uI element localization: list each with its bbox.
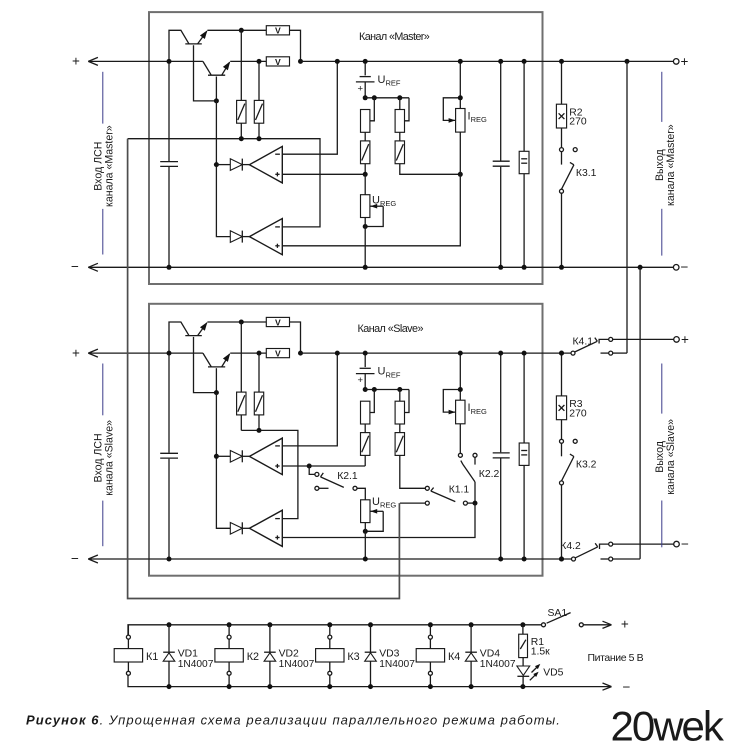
svg-text:К2: К2	[247, 651, 259, 663]
relay K3 coil	[327, 622, 332, 627]
node slave divider1 wiper tap	[372, 387, 377, 392]
diode slave upper op-amp output	[230, 451, 242, 463]
svg-text:V: V	[275, 26, 281, 36]
svg-text:−: −	[681, 259, 689, 274]
wire slave − rail	[88, 558, 571, 560]
potentiometer U_REG slave	[361, 500, 370, 523]
svg-text:+: +	[681, 54, 689, 69]
slave output label line lower	[661, 501, 663, 548]
wire master R-a wiper loop	[370, 98, 374, 121]
slave input label line lower	[102, 501, 104, 547]
wire slave R-d bottom to K1.1	[400, 455, 426, 488]
svg-text:Канал «Slave»: Канал «Slave»	[358, 323, 424, 335]
wire slave current setpoint to lower op-amp +	[282, 503, 475, 537]
node I_REG master top on + rail	[458, 59, 463, 64]
resistor master adjustable R-b	[361, 141, 370, 164]
potentiometer U_REG master	[364, 174, 366, 194]
svg-text:V: V	[275, 317, 281, 327]
wire master divider top link	[365, 97, 409, 99]
resistor slave divider R-a	[361, 401, 370, 424]
resistor master divider R-a	[361, 110, 370, 133]
svg-text:270: 270	[569, 117, 587, 128]
svg-text:+: +	[621, 616, 629, 631]
svg-text:V: V	[275, 349, 281, 359]
node К3.2 bottom on − rail	[559, 557, 564, 562]
resistor slave adjustable R-b	[361, 433, 370, 456]
wire К3.2 to − rail	[561, 485, 563, 559]
diode VD1 1N4007	[167, 622, 172, 627]
diode VD2 1N4007	[267, 622, 272, 627]
svg-text:UREG: UREG	[372, 496, 396, 510]
svg-text:+: +	[358, 83, 364, 94]
wire slave R-c to adjustable	[399, 424, 401, 433]
svg-text:20wek: 20wek	[611, 702, 725, 748]
diode master lower op-amp output	[230, 231, 242, 243]
wire master drive tap to upper diode	[216, 164, 230, 166]
wire slave upper op-amp − input to + rail	[282, 353, 337, 446]
wire master R-b bottom to + input	[364, 164, 366, 175]
wire master + rail right of pass transistors	[230, 60, 266, 62]
LED VD5	[517, 666, 530, 675]
wire master base drive to error amps	[216, 101, 230, 237]
node master V-meters junction on + rail	[298, 59, 303, 64]
node master divider1 wiper tap	[372, 95, 377, 100]
wire slave divider top link	[365, 389, 409, 391]
svg-text:К2.2: К2.2	[479, 469, 500, 480]
node slave sense wire shunt2 junction	[257, 428, 262, 433]
wire U_REG slave wiper loop	[370, 510, 383, 512]
svg-text:1N4007: 1N4007	[178, 659, 214, 670]
svg-text:VD5: VD5	[543, 668, 563, 679]
wire K2.2 to K1.1 junction	[474, 482, 476, 503]
svg-text:UREG: UREG	[372, 194, 396, 208]
node slave base drive junction	[214, 390, 219, 395]
slave output label line upper	[661, 364, 663, 414]
wire master − rail to slave K4.2	[639, 267, 641, 559]
node slave divider top	[363, 387, 368, 392]
node master cap2 bottom	[522, 265, 527, 270]
switch K1.1 relay contact	[425, 486, 429, 490]
resistor R1 1.5k	[520, 622, 525, 627]
switch К3.2 relay contact	[560, 439, 564, 443]
wire master R-a to adjustable	[364, 132, 366, 141]
wire master current-sense line	[128, 139, 320, 227]
op-amp master current error amp (lower)	[249, 219, 282, 255]
wire K2.1 to U_REG top	[357, 488, 365, 500]
svg-text:К1: К1	[146, 651, 158, 663]
node К3.1 bottom on − rail	[559, 265, 564, 270]
svg-text:канала «Slave»: канала «Slave»	[665, 419, 677, 495]
node slave cap2 top	[522, 351, 527, 356]
node I_REG slave wiper tap	[458, 387, 463, 392]
switch K2.1 relay contact	[307, 464, 312, 469]
svg-text:+: +	[358, 375, 364, 386]
resistor slave shunt 1 (adjustable)	[240, 322, 242, 392]
transistor Q1 master pass (upper)	[169, 30, 189, 61]
op-amp slave voltage error amp (upper)	[249, 438, 282, 475]
resistor master adjustable R-d	[395, 141, 404, 164]
capacitor slave output 1	[500, 353, 502, 452]
node slave cap1 bottom	[498, 557, 503, 562]
svg-text:Вход ЛСН: Вход ЛСН	[92, 142, 104, 191]
slave input label	[92, 420, 115, 496]
transistor Q2 slave pass (lower)	[203, 353, 211, 367]
node master input cap bottom on − rail	[167, 265, 172, 270]
battery master U_REF reference	[364, 61, 366, 75]
wire relay chain − rail	[128, 675, 611, 686]
node master U_REF top on + rail	[363, 59, 368, 64]
switch K2.2 relay contact	[459, 424, 461, 454]
relay K2 coil	[227, 622, 232, 627]
wire slave upper V-meter to + rail	[290, 322, 301, 353]
wire master R-c wiper loop	[405, 98, 409, 121]
switch K4.2 relay contact	[559, 557, 564, 562]
svg-text:К3.2: К3.2	[576, 460, 597, 471]
slave − output terminal	[613, 543, 674, 545]
capacitor slave input filter	[168, 353, 170, 453]
wire slave R-a to adjustable	[364, 424, 366, 433]
V-meter box master lower	[266, 57, 289, 66]
node master base drive junction	[214, 98, 219, 103]
node I_REG master wiper tap	[458, 95, 463, 100]
wire master + rail to slave K4.1	[626, 61, 628, 353]
svg-text:канала «Slave»: канала «Slave»	[104, 420, 116, 496]
node master sense wire shunt2 junction	[257, 136, 262, 141]
switch К3.1 relay contact	[560, 148, 564, 152]
resistor master divider R-c	[399, 98, 401, 110]
node master input cap top on + rail	[167, 59, 172, 64]
wire I_REG master wiper loop	[443, 98, 460, 121]
wire Q2 master base lead	[215, 77, 217, 101]
node slave U_REF top on + rail	[363, 351, 368, 356]
svg-text:К4: К4	[448, 651, 460, 663]
svg-text:+: +	[681, 332, 689, 347]
wire Q2 slave base lead	[215, 368, 217, 392]
diode VD4 1N4007	[469, 622, 474, 627]
wire slave R-c wiper loop	[405, 390, 409, 413]
wire slave upper diode to op-amp output	[243, 455, 250, 457]
slave input label line upper	[102, 364, 104, 416]
svg-text:VD4: VD4	[480, 648, 500, 659]
capacitor master output 2 (electrolytic)	[523, 61, 525, 151]
wire U_REG master wiper loop	[370, 205, 383, 207]
svg-text:UREF: UREF	[378, 74, 401, 88]
node Q1 master emitter wire junction	[239, 28, 244, 33]
node slave shunt 2 top on + rail	[257, 351, 262, 356]
slave channel frame box	[149, 304, 543, 576]
svg-text:К4.1: К4.1	[573, 336, 594, 347]
node master cap1 top	[498, 59, 503, 64]
svg-text:К3: К3	[347, 651, 359, 663]
svg-text:Вход ЛСН: Вход ЛСН	[92, 433, 104, 482]
V-meter box slave upper	[266, 317, 289, 326]
master input label line lower	[102, 209, 104, 255]
node U_REG slave on − rail	[363, 557, 368, 562]
master output label line lower	[661, 209, 663, 256]
wire slave + input rail	[88, 352, 203, 354]
master + output terminal	[625, 59, 630, 64]
wire master R-c to adjustable	[399, 132, 401, 141]
node master divider2 top	[397, 95, 402, 100]
svg-text:VD3: VD3	[379, 648, 399, 659]
wire master upper op-amp − input to + rail	[282, 61, 337, 154]
node K1.1/K2.2 junction	[473, 501, 478, 506]
svg-text:+: +	[72, 345, 80, 360]
svg-text:VD2: VD2	[279, 648, 299, 659]
slave + output terminal	[613, 338, 674, 340]
wire slave upper op-amp + input	[282, 465, 365, 467]
wire К3.1 to − rail	[561, 193, 563, 267]
wire slave base drive to error amps	[216, 393, 230, 529]
wire I_REG slave wiper loop	[443, 390, 460, 413]
node U_REG slave bottom	[363, 529, 368, 534]
capacitor master input filter	[168, 61, 170, 161]
node slave cap2 bottom	[522, 557, 527, 562]
wire master upper op-amp + input	[282, 173, 365, 175]
wire slave lower diode to op-amp output	[243, 527, 250, 529]
wire master R-d bottom to I_REG bottom	[400, 164, 461, 175]
wire Q1 slave emitter to V-meter	[207, 321, 266, 323]
wire Q1 slave base lead	[194, 337, 217, 393]
V-meter box master upper	[266, 26, 289, 35]
slave output label	[654, 419, 677, 495]
wire master + input rail	[88, 60, 203, 62]
svg-text:−: −	[623, 679, 631, 694]
node master drive tap to upper diode	[214, 162, 219, 167]
svg-text:1.5к: 1.5к	[531, 647, 550, 658]
diode slave lower op-amp output	[230, 523, 242, 535]
svg-text:270: 270	[569, 408, 587, 419]
svg-text:−: −	[71, 259, 79, 274]
svg-text:UREF: UREF	[378, 366, 401, 380]
node U_REG master bottom	[363, 224, 368, 229]
op-amp slave current error amp (lower)	[249, 510, 282, 546]
master input label line upper	[102, 72, 104, 124]
wire Q1 master base lead	[194, 45, 217, 101]
resistor master shunt 2 (adjustable)	[258, 61, 260, 100]
svg-text:К3.1: К3.1	[576, 168, 597, 179]
transistor Q2 master pass (lower)	[203, 61, 211, 75]
svg-text:Питание 5 В: Питание 5 В	[588, 652, 644, 664]
node master divider top	[363, 95, 368, 100]
svg-text:V: V	[275, 57, 281, 67]
wire master + rail to reference divider	[301, 60, 674, 62]
wire master upper V-meter to + rail	[290, 30, 301, 61]
node R2 top on + rail	[559, 59, 564, 64]
svg-text:канала «Master»: канала «Master»	[104, 125, 116, 207]
node R3 top on + rail	[559, 351, 564, 356]
svg-text:1N4007: 1N4007	[279, 659, 315, 670]
diode master upper op-amp output	[230, 159, 242, 171]
resistor R2 270	[561, 61, 563, 104]
node slave voltage feedback tap on + rail	[335, 351, 340, 356]
svg-text:−: −	[681, 537, 689, 552]
node master cap2 top	[522, 59, 527, 64]
svg-text:1N4007: 1N4007	[379, 659, 415, 670]
svg-text:К2.1: К2.1	[337, 471, 358, 482]
svg-text:канала «Master»: канала «Master»	[665, 124, 677, 206]
wire slave drive tap to upper diode	[216, 455, 230, 457]
node master cap1 bottom	[498, 265, 503, 270]
resistor slave adjustable R-d	[395, 433, 404, 456]
master channel frame box	[149, 12, 543, 284]
capacitor master output 1	[500, 61, 502, 160]
wire master current setpoint to lower op-amp +	[282, 132, 460, 246]
svg-text:Выход: Выход	[654, 149, 666, 181]
node master sense wire shunt1 junction	[239, 136, 244, 141]
master − output terminal	[638, 265, 643, 270]
node master current setpoint junction	[458, 172, 463, 177]
wire master sense to slave K1.1 control path	[128, 139, 400, 599]
diode VD3 1N4007	[368, 622, 373, 627]
relay K1 coil	[127, 625, 129, 635]
node master voltage feedback tap on + rail	[335, 59, 340, 64]
node I_REG slave top on + rail	[458, 351, 463, 356]
node master voltage setpoint junction	[363, 172, 368, 177]
svg-text:К1.1: К1.1	[449, 484, 470, 495]
wire U_REG master bottom to − rail	[364, 218, 366, 268]
svg-text:Канал «Master»: Канал «Master»	[359, 31, 430, 43]
svg-text:Выход: Выход	[654, 441, 666, 473]
V-meter box slave lower	[266, 349, 289, 358]
wire slave R-a wiper loop	[370, 390, 374, 413]
node slave input cap bottom on − rail	[167, 557, 172, 562]
wire relay chain + rail after SA1	[583, 624, 611, 626]
master output label	[654, 124, 677, 206]
wire slave current-sense line	[241, 430, 298, 518]
node master shunt 2 top on + rail	[257, 59, 262, 64]
resistor master shunt 1 (adjustable)	[240, 30, 242, 100]
wire master − rail	[88, 266, 673, 268]
capacitor slave output 2 (electrolytic)	[523, 353, 525, 443]
svg-text:−: −	[71, 551, 79, 566]
svg-text:VD1: VD1	[178, 648, 198, 659]
svg-text:К4.2: К4.2	[560, 541, 581, 552]
node slave drive tap to upper diode	[214, 454, 219, 459]
resistor slave shunt 2 (adjustable)	[258, 353, 260, 392]
node Q1 slave emitter wire junction	[239, 320, 244, 325]
op-amp master voltage error amp (upper)	[249, 146, 282, 183]
svg-text:IREG: IREG	[468, 402, 487, 416]
switch K4.1 relay contact	[559, 351, 564, 356]
transistor Q1 slave pass (upper)	[169, 322, 189, 353]
node slave cap1 top	[498, 351, 503, 356]
resistor R3 270	[561, 353, 563, 396]
svg-text:IREG: IREG	[468, 111, 487, 125]
wire slave R-b bottom to + input	[364, 455, 366, 466]
relay K4 coil	[428, 622, 433, 627]
master input label	[92, 125, 115, 207]
wire slave + rail to reference divider	[301, 352, 572, 354]
wire master upper diode to op-amp output	[243, 164, 250, 166]
potentiometer I_REG slave	[459, 353, 461, 400]
resistor slave divider R-c	[399, 390, 401, 402]
wire U_REG slave bottom to − rail	[364, 523, 366, 559]
svg-text:Рисунок 6. Упрощенная схема ре: Рисунок 6. Упрощенная схема реализации п…	[26, 713, 561, 728]
wire Q1 master emitter to V-meter	[207, 29, 266, 31]
wire relay chain + rail	[128, 625, 541, 635]
wire master lower diode to op-amp output	[243, 236, 250, 238]
svg-text:1N4007: 1N4007	[480, 659, 516, 670]
node slave input cap top on + rail	[167, 351, 172, 356]
svg-text:+: +	[72, 54, 80, 69]
svg-text:SA1: SA1	[548, 608, 568, 619]
node slave V-meters junction on + rail	[298, 351, 303, 356]
battery slave U_REF reference	[364, 353, 366, 367]
node slave divider2 top	[397, 387, 402, 392]
wire slave + rail right of pass transistors	[230, 352, 266, 354]
potentiometer I_REG master	[459, 61, 461, 108]
master output label line upper	[661, 72, 663, 122]
switch SA1 power	[542, 623, 546, 627]
node U_REG master on − rail	[363, 265, 368, 270]
